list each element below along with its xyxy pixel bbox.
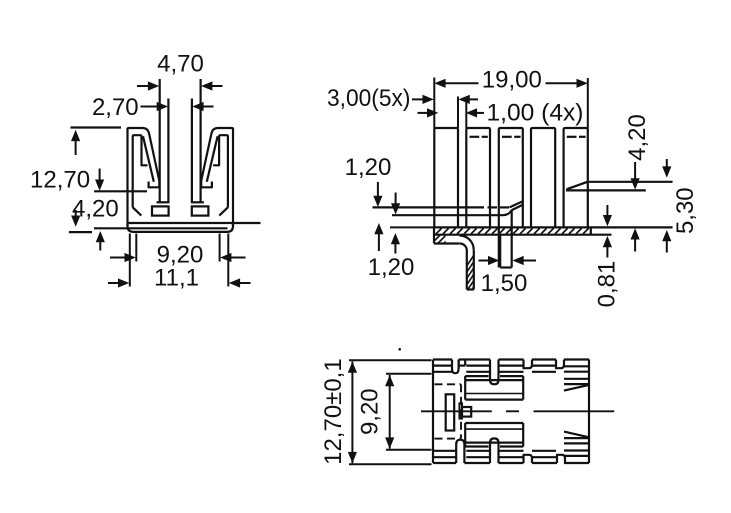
svg-text:4,20: 4,20 xyxy=(624,114,651,161)
svg-text:3,00(5x): 3,00(5x) xyxy=(327,85,411,112)
svg-text:1,00 (4x): 1,00 (4x) xyxy=(487,99,584,126)
svg-text:1,20: 1,20 xyxy=(368,254,415,281)
svg-text:12,70±0,1: 12,70±0,1 xyxy=(320,358,347,465)
svg-text:19,00: 19,00 xyxy=(482,66,542,93)
svg-text:2,70: 2,70 xyxy=(92,94,139,121)
svg-text:4,70: 4,70 xyxy=(157,51,204,78)
svg-text:0,81: 0,81 xyxy=(594,261,621,308)
svg-text:11,1: 11,1 xyxy=(154,265,199,292)
svg-text:12,70: 12,70 xyxy=(30,167,90,194)
svg-text:1,20: 1,20 xyxy=(345,154,392,181)
svg-text:9,20: 9,20 xyxy=(357,388,384,435)
svg-text:5,30: 5,30 xyxy=(672,187,699,234)
svg-text:1,50: 1,50 xyxy=(481,270,528,297)
